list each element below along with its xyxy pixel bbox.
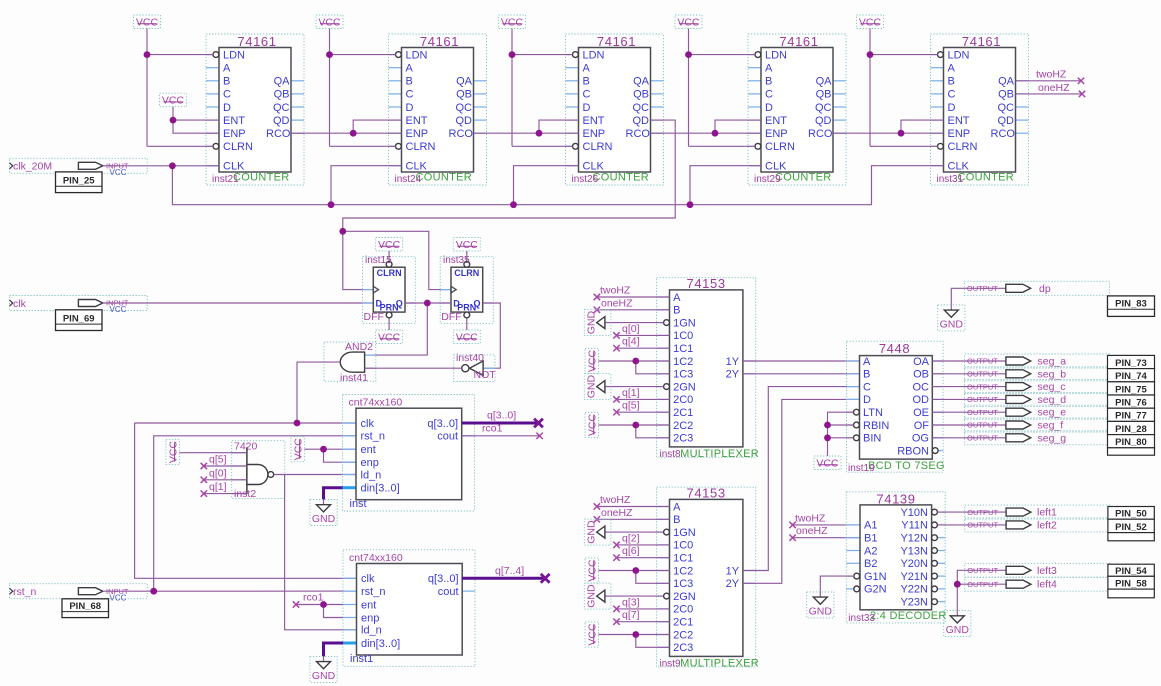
ground symbol below cnt74xx160 inst1 — [310, 656, 337, 682]
svg-text:inst: inst — [350, 498, 367, 510]
svg-text:clk: clk — [13, 298, 27, 310]
svg-text:PIN_58: PIN_58 — [1115, 579, 1147, 590]
pin number box PIN_83 — [1108, 296, 1155, 317]
wire VCC to ent/enp of cnt74xx160 inst — [304, 446, 356, 462]
wire din of inst1 to GND — [324, 643, 344, 656]
wire din of inst to GND — [324, 488, 343, 500]
counter U-74161 inst21 — [206, 34, 304, 185]
wire VCC to LDN/CLRN of inst21 — [144, 29, 213, 147]
svg-text:inst1: inst1 — [350, 653, 373, 665]
wire GND to 1GN inst9 — [611, 531, 664, 533]
svg-text:PIN_73: PIN_73 — [1115, 358, 1147, 369]
svg-text:PIN_83: PIN_83 — [1115, 298, 1147, 309]
svg-text:seg_e: seg_e — [1038, 407, 1067, 419]
svg-text:left2: left2 — [1037, 519, 1057, 531]
AND2 gate inst41 — [324, 341, 376, 384]
svg-text:Y22N: Y22N — [900, 584, 928, 596]
wire 1Y inst9 to C 7448 — [743, 387, 860, 571]
svg-text:Y23N: Y23N — [900, 597, 928, 609]
ground symbol at 2GN inst9 — [584, 583, 611, 609]
svg-text:oneHZ: oneHZ — [601, 297, 633, 309]
output pin seg_c — [965, 380, 1110, 394]
wire Q DFF inst15 to D DFF inst35 and AND2 input — [365, 300, 451, 356]
svg-text:clk_20M: clk_20M — [13, 161, 52, 173]
bus q[7..4] from inst1 — [462, 565, 550, 583]
wire PRN bubble to VCC DFF inst15 — [388, 318, 390, 330]
svg-text:G1N: G1N — [864, 571, 887, 583]
svg-text:inst41: inst41 — [340, 372, 368, 384]
net q[2] to 1C0 inst9 — [613, 532, 669, 548]
wire VCC to 1C2 1C3 inst8 — [599, 358, 670, 374]
ground symbol below left4 — [944, 611, 971, 637]
pin number box PIN_77 — [1108, 408, 1155, 422]
wire VCC to 2C2 2C3 inst9 — [599, 631, 670, 647]
net q[1] to 7420 — [201, 481, 247, 497]
counter U-74161 inst24 — [389, 34, 487, 185]
VCC symbol for inst21 ENT/ENP — [160, 93, 187, 107]
counter U-74161 inst29 — [748, 34, 846, 185]
VCC symbol at 1C2/1C3 inst8 — [585, 348, 599, 373]
wire GND to 2GN inst9 — [611, 595, 664, 597]
NOT gate inst40 — [454, 352, 497, 382]
net twoHZ from QA inst31 — [1016, 69, 1085, 85]
wire G1N 74139 to GND — [820, 576, 854, 592]
svg-text:inst8: inst8 — [660, 449, 682, 460]
svg-text:PIN_74: PIN_74 — [1115, 371, 1147, 382]
wire 7420 output to ld_n of both cnt blocks — [274, 475, 357, 630]
svg-text:q[4]: q[4] — [622, 336, 640, 348]
output pin left4 — [965, 577, 1110, 591]
pin number box PIN_80 — [1108, 435, 1155, 449]
svg-text:PIN_50: PIN_50 — [1115, 509, 1147, 520]
svg-text:PIN_75: PIN_75 — [1115, 384, 1147, 395]
svg-text:B1: B1 — [864, 533, 877, 545]
svg-text:Y10N: Y10N — [900, 507, 928, 519]
output pin seg_e — [965, 405, 1110, 419]
wire 1Y inst8 to A 7448 — [743, 360, 860, 362]
svg-text:Y20N: Y20N — [900, 558, 928, 570]
wire GND to 1GN inst8 — [611, 322, 664, 324]
output pin seg_a — [965, 354, 1110, 368]
svg-text:RBIN: RBIN — [863, 420, 889, 432]
svg-text:OF: OF — [914, 420, 930, 432]
empty pin box below PIN_58 — [1108, 589, 1154, 598]
svg-text:PIN_69: PIN_69 — [63, 314, 95, 325]
svg-text:inst19: inst19 — [848, 463, 875, 474]
svg-text:PIN_28: PIN_28 — [1115, 424, 1147, 435]
empty pin box below PIN_52 — [1108, 533, 1154, 541]
pin number box PIN_74 — [1108, 369, 1155, 383]
wire RCO inst21 to ENT/ENP inst24 — [291, 120, 402, 137]
svg-text:dp: dp — [1039, 283, 1051, 295]
net q[3] to 2C0 inst9 — [613, 596, 669, 612]
net q[4] to 1C1 inst8 — [613, 336, 669, 352]
svg-text:B2: B2 — [864, 558, 877, 570]
svg-text:q[0]: q[0] — [622, 323, 640, 335]
VCC symbol above DFF inst15 — [376, 238, 403, 252]
wire VCC to LDN/CLRN of inst24 — [326, 29, 395, 147]
svg-text:BIN: BIN — [863, 433, 881, 445]
svg-text:twoHZ: twoHZ — [1036, 69, 1067, 81]
wire VCC to 1C2 1C3 inst9 — [599, 567, 670, 583]
svg-text:seg_f: seg_f — [1038, 420, 1064, 432]
svg-text:inst31: inst31 — [937, 174, 964, 185]
VCC symbol left of 7420 — [166, 439, 180, 464]
svg-text:A2: A2 — [864, 545, 877, 557]
output pin seg_g — [965, 431, 1110, 445]
pin number box PIN_58 — [1108, 576, 1154, 589]
svg-text:OD: OD — [913, 394, 930, 406]
VCC symbol above inst26 — [499, 15, 526, 29]
ground symbol for G1N 74139 — [807, 592, 834, 618]
counter U-74161 inst31 — [931, 34, 1029, 185]
svg-text:inst24: inst24 — [395, 174, 422, 185]
svg-text:NOT: NOT — [474, 369, 497, 381]
empty pin box below PIN_80 — [1108, 448, 1155, 455]
svg-text:seg_b: seg_b — [1038, 368, 1067, 380]
svg-text:PIN_77: PIN_77 — [1115, 411, 1147, 422]
svg-text:q[2]: q[2] — [622, 532, 640, 544]
wire Q DFF inst35 to NOT input — [483, 303, 501, 368]
NAND4 gate 7420 inst2 — [232, 440, 285, 500]
multiplexer 74153 inst9 — [657, 486, 759, 670]
svg-text:inst29: inst29 — [754, 174, 781, 185]
pin number box PIN_68 — [62, 599, 109, 618]
svg-text:left3: left3 — [1037, 565, 1057, 577]
net q[1] to 2C0 inst8 — [613, 387, 669, 403]
pin number box PIN_25 — [56, 172, 103, 193]
svg-text:OC: OC — [913, 381, 930, 393]
wire 2Y inst8 to B 7448 — [743, 373, 860, 375]
pin number box PIN_28 — [1108, 421, 1155, 435]
svg-text:rco1: rco1 — [303, 592, 324, 604]
wire PRN bubble to VCC DFF inst35 — [466, 318, 468, 330]
wire RCO inst29 to ENT/ENP inst31 — [833, 120, 944, 137]
svg-text:rst_n: rst_n — [13, 586, 37, 598]
ground symbol for dp — [938, 305, 965, 331]
output pin seg_f — [965, 418, 1110, 432]
VCC symbol for LTN/RBIN/BIN 7448 — [814, 456, 841, 470]
VCC symbol above inst31 — [857, 15, 884, 29]
wire VCC to LTN RBIN BIN 7448 — [824, 412, 853, 456]
D flip-flop inst35 — [440, 255, 493, 324]
input pin clk — [10, 296, 148, 315]
svg-text:q[3]: q[3] — [622, 596, 640, 608]
svg-text:twoHZ: twoHZ — [600, 494, 631, 506]
net q[5] to 7420 — [201, 454, 247, 470]
svg-text:PIN_76: PIN_76 — [1115, 398, 1147, 409]
svg-text:q[3..0]: q[3..0] — [487, 410, 516, 422]
svg-text:twoHZ: twoHZ — [600, 285, 631, 297]
svg-text:Y13N: Y13N — [900, 545, 928, 557]
svg-text:G2N: G2N — [864, 584, 887, 596]
wire VCC to LDN/CLRN of inst29 — [685, 29, 755, 147]
wire clk input to D of DFF inst15 — [147, 302, 373, 304]
net rco1 to ent/enp of inst1 — [293, 592, 343, 618]
pin number box PIN_75 — [1108, 382, 1155, 396]
svg-text:q[1]: q[1] — [622, 387, 640, 399]
wire net rst_n to both counters — [147, 436, 356, 595]
VCC symbol at 1C2/1C3 inst9 — [585, 558, 599, 583]
svg-text:Y21N: Y21N — [900, 571, 928, 583]
svg-text:PIN_80: PIN_80 — [1115, 437, 1147, 448]
net q[6] to 1C1 inst9 — [613, 545, 669, 561]
svg-text:D: D — [863, 394, 871, 406]
net oneHZ to B inst9 — [594, 507, 670, 523]
svg-text:PIN_54: PIN_54 — [1115, 566, 1147, 577]
svg-text:oneHZ: oneHZ — [1038, 82, 1070, 94]
net q[0] to 7420 — [201, 467, 247, 483]
net q[7] to 2C1 inst9 — [613, 609, 669, 625]
net twoHZ to A inst9 — [594, 494, 670, 510]
VCC symbol above inst29 — [675, 15, 702, 29]
pin number box PIN_50 — [1108, 507, 1154, 520]
ground symbol at 1GN inst9 — [584, 519, 611, 545]
VCC symbol at 2C2/2C3 inst9 — [585, 622, 599, 647]
wire VCC to LDN/CLRN of inst31 — [867, 29, 938, 147]
net oneHZ from QB inst31 — [1016, 82, 1086, 97]
output pin seg_d — [965, 392, 1110, 406]
wire VCC to 2C2 2C3 inst8 — [599, 422, 670, 438]
svg-text:seg_a: seg_a — [1038, 356, 1067, 368]
bus q[3..0] from inst — [462, 410, 543, 428]
svg-text:oneHZ: oneHZ — [796, 525, 828, 537]
wire GND to 2GN inst8 — [611, 386, 664, 388]
pin number box PIN_73 — [1108, 355, 1155, 369]
svg-text:RBON: RBON — [897, 445, 929, 457]
wire OG 7448 to output seg_g — [932, 437, 964, 439]
svg-text:inst2: inst2 — [234, 488, 256, 500]
svg-text:74139: 74139 — [876, 491, 915, 506]
svg-text:q[1]: q[1] — [209, 481, 227, 493]
counter block cnt74xx160 inst — [343, 395, 475, 512]
wire 2Y inst9 to D 7448 — [743, 399, 860, 583]
ground symbol below cnt74xx160 inst — [310, 500, 337, 526]
wire QD inst26 to DFF clocks — [339, 120, 675, 290]
svg-text:C: C — [863, 381, 871, 393]
svg-text:seg_d: seg_d — [1038, 394, 1067, 406]
wire VCC to 7420 input — [179, 452, 247, 454]
svg-text:rco1: rco1 — [482, 423, 503, 435]
wire OC 7448 to output seg_c — [932, 386, 964, 388]
svg-text:q[7]: q[7] — [622, 609, 640, 621]
svg-text:inst21: inst21 — [212, 174, 239, 185]
wire VCC to CLRN bubble DFF inst15 — [388, 251, 390, 261]
wire Y11N to output left2 — [937, 524, 964, 526]
pin number box PIN_54 — [1108, 564, 1154, 577]
VCC symbol below DFF inst35 — [453, 330, 480, 344]
svg-text:q[7..4]: q[7..4] — [495, 565, 524, 577]
wire VCC to CLRN bubble DFF inst35 — [466, 251, 468, 261]
svg-text:A: A — [863, 356, 871, 368]
svg-text:left4: left4 — [1037, 579, 1057, 591]
svg-text:q[5]: q[5] — [622, 400, 640, 412]
wire RCO inst24 to ENT/ENP inst26 — [474, 120, 579, 137]
output pin seg_b — [965, 367, 1110, 381]
svg-text:OA: OA — [913, 356, 930, 368]
svg-text:seg_g: seg_g — [1038, 432, 1067, 444]
output pin dp — [964, 281, 1109, 295]
BCD to 7-segment decoder 7448 inst19 — [847, 341, 945, 474]
output pin left3 — [965, 563, 1110, 577]
svg-text:OB: OB — [913, 369, 929, 381]
pin number box PIN_69 — [56, 310, 103, 331]
ground symbol at 2GN inst8 — [584, 374, 611, 400]
wire net GND to left3 left4 outputs — [954, 570, 965, 610]
multiplexer 74153 inst8 — [657, 276, 759, 460]
pin number box PIN_76 — [1108, 395, 1155, 409]
svg-text:OG: OG — [912, 433, 929, 445]
svg-text:oneHZ: oneHZ — [601, 507, 633, 519]
svg-text:inst15: inst15 — [365, 255, 392, 266]
counter U-74161 inst26 — [566, 34, 664, 185]
svg-text:7420: 7420 — [234, 440, 258, 452]
VCC symbol above DFF inst35 — [453, 238, 480, 252]
wire OA 7448 to output seg_a — [932, 360, 964, 362]
svg-text:q[5]: q[5] — [209, 454, 227, 466]
svg-text:Y11N: Y11N — [901, 520, 928, 532]
net twoHZ to A inst8 — [594, 285, 670, 301]
wire VCC to ENT/ENP of inst21 — [170, 107, 219, 134]
svg-text:q[0]: q[0] — [209, 467, 227, 479]
wire NOT output to AND2 input — [365, 367, 462, 369]
D flip-flop inst15 — [363, 255, 416, 324]
net twoHZ to A1 74139 — [789, 512, 860, 528]
input pin rst_n — [10, 584, 148, 603]
VCC symbol right of 7420 — [291, 437, 305, 462]
VCC symbol below DFF inst15 — [376, 330, 403, 344]
wire net clk_20M distribution — [147, 162, 943, 208]
svg-text:left1: left1 — [1037, 507, 1057, 519]
svg-text:A1: A1 — [864, 520, 877, 532]
counter block cnt74xx160 inst1 — [343, 550, 475, 667]
input pin clk_20M — [10, 158, 148, 177]
svg-text:BCD TO 7SEG: BCD TO 7SEG — [868, 460, 945, 472]
svg-text:q[6]: q[6] — [622, 545, 640, 557]
svg-text:inst33: inst33 — [848, 613, 875, 624]
wire VCC to LDN/CLRN of inst26 — [509, 29, 573, 147]
svg-text:PIN_68: PIN_68 — [69, 601, 101, 612]
net q[5] to 2C1 inst8 — [613, 400, 669, 416]
svg-text:2:4 DECODER: 2:4 DECODER — [870, 610, 947, 622]
svg-text:seg_c: seg_c — [1038, 381, 1066, 393]
pin number box PIN_52 — [1108, 519, 1154, 533]
wire dp to GND — [951, 288, 964, 305]
output pin left2 — [965, 518, 1110, 532]
wire OB 7448 to output seg_b — [932, 373, 964, 375]
wire OE 7448 to output seg_e — [932, 411, 964, 413]
ground symbol at 1GN inst8 — [584, 310, 611, 336]
svg-text:Y12N: Y12N — [900, 533, 928, 545]
svg-text:PIN_52: PIN_52 — [1115, 522, 1147, 533]
svg-text:inst35: inst35 — [443, 255, 470, 266]
net oneHZ to B inst8 — [594, 297, 670, 313]
wire AND2 output to clk of cnt74xx160 blocks — [135, 362, 357, 578]
svg-text:inst9: inst9 — [660, 659, 682, 670]
wire OF 7448 to output seg_f — [932, 424, 964, 426]
VCC symbol at 2C2/2C3 inst8 — [585, 412, 599, 437]
output pin left1 — [965, 505, 1110, 519]
svg-text:LTN: LTN — [863, 407, 883, 419]
svg-text:twoHZ: twoHZ — [795, 512, 826, 524]
svg-text:7448: 7448 — [879, 341, 910, 356]
decoder 74139 inst33 — [846, 491, 946, 624]
svg-text:B: B — [863, 369, 870, 381]
net q[0] to 1C0 inst8 — [613, 323, 669, 339]
VCC symbol above inst24 — [316, 15, 343, 29]
wire RCO inst26 to ENT/ENP inst29 — [651, 120, 762, 137]
wire Y10N to output left1 — [937, 511, 964, 513]
svg-text:inst26: inst26 — [572, 174, 599, 185]
svg-text:OE: OE — [913, 407, 929, 419]
VCC symbol above inst21 — [134, 15, 161, 29]
wire OD 7448 to output seg_d — [932, 398, 964, 400]
net oneHZ to B1 74139 — [789, 525, 860, 541]
svg-text:PIN_25: PIN_25 — [63, 176, 95, 187]
net rco1 from cout of inst — [462, 423, 543, 439]
